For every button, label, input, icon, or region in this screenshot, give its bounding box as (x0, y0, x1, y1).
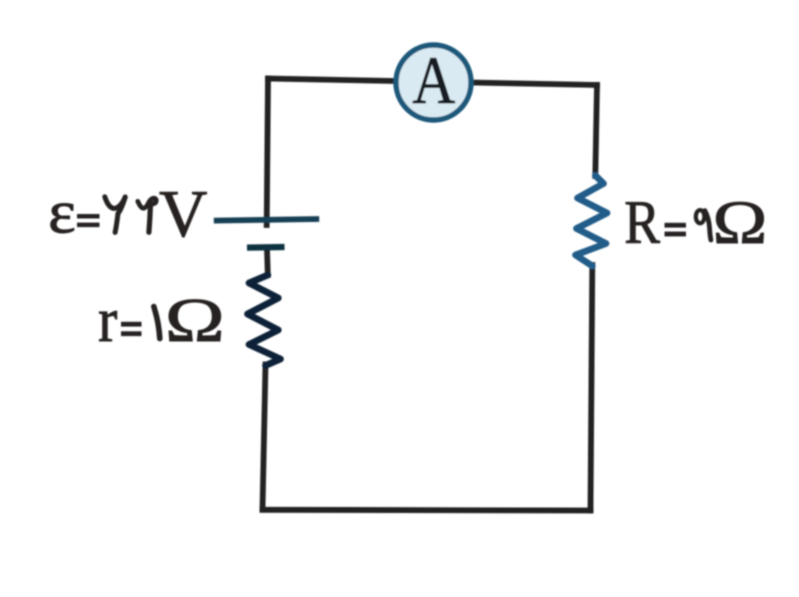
svg-text:r: r (98, 285, 117, 355)
svg-text:ε: ε (48, 178, 76, 246)
svg-text:R: R (624, 189, 660, 256)
svg-text:V: V (159, 177, 207, 251)
svg-text:Ω: Ω (713, 189, 768, 257)
svg-text:Ω: Ω (165, 286, 225, 355)
svg-text:A: A (412, 42, 455, 118)
